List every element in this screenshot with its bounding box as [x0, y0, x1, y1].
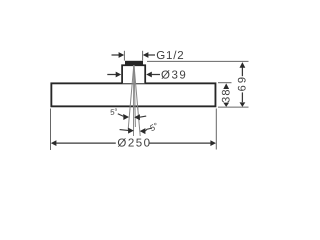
angle 5deg upper left arrow	[123, 114, 129, 120]
svg-text:69: 69	[237, 75, 249, 92]
G1/2 left arrow	[119, 52, 125, 58]
D39 left arrow	[116, 72, 122, 78]
G1/2 extension line right	[142, 51, 144, 61]
spray fan right line 5deg	[134, 64, 140, 136]
extension line disc left bottom	[50, 109, 52, 151]
svg-text:G1/2: G1/2	[156, 50, 184, 62]
dim 69 line upper	[241, 68, 243, 77]
extension line disc top right	[218, 82, 232, 84]
dim 38 up arrow	[223, 83, 229, 89]
extension line disc right bottom	[215, 109, 217, 150]
G1/2 dimension line left tail	[112, 54, 120, 56]
extension line thread top right	[147, 60, 249, 62]
svg-text:Ø39: Ø39	[161, 69, 187, 81]
G1/2 right arrow	[143, 52, 149, 58]
svg-text:Ø250: Ø250	[117, 138, 151, 150]
angle 5deg upper right tail	[140, 116, 147, 117]
dim 69 down arrow	[240, 102, 246, 107]
extension line disc bottom right	[218, 106, 249, 108]
angle 5deg lower right arrow	[140, 128, 146, 134]
G1/2 extension line left	[123, 51, 125, 61]
angle 5deg lower leader	[145, 128, 152, 131]
dim 38 text	[221, 88, 233, 103]
D39 text	[161, 69, 187, 81]
spray fan center-left line	[133, 64, 135, 136]
angle 5deg upper leader	[118, 114, 124, 117]
svg-text:38: 38	[221, 88, 233, 103]
angle 5deg lower left tail	[120, 129, 129, 132]
D39 right arrow	[146, 72, 152, 78]
angle 5deg upper right arrow	[134, 114, 140, 120]
dim 69 up arrow	[240, 62, 246, 68]
D39 dimension right tail	[152, 74, 160, 76]
spray fan center-right line	[134, 64, 135, 127]
angle 5deg lower left arrow	[128, 128, 134, 134]
G1/2 dimension line right tail	[148, 54, 155, 56]
D250 dimension line left segment	[56, 142, 116, 144]
shower head disc body	[51, 83, 215, 106]
D250 left arrow	[51, 140, 57, 146]
D39 dimension left tail	[107, 74, 116, 76]
angle 5deg upper text	[109, 107, 119, 118]
angle 5deg lower text	[148, 120, 161, 133]
dim 69 line lower	[241, 92, 243, 102]
D250 right arrow	[210, 140, 216, 146]
spray fan left line 5deg	[128, 64, 134, 130]
D250 dimension line right segment	[149, 142, 210, 144]
dim 69 text	[237, 75, 249, 92]
spray fan inside connector and disc (redraw over white fill)	[130, 64, 138, 110]
G1/2 text	[156, 50, 184, 62]
connector cylinder	[122, 65, 145, 83]
thread stub G1/2	[125, 61, 143, 65]
D250 text	[117, 138, 151, 150]
dim 38 down arrow	[223, 103, 229, 107]
